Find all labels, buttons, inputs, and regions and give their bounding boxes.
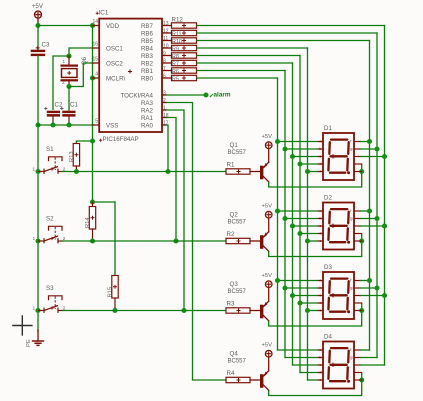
node pin14 junction <box>90 23 95 28</box>
node crystal pin1 junction <box>66 53 71 58</box>
svg-text:g: g <box>350 216 352 221</box>
wire RA3 row to R4 <box>193 379 227 381</box>
node bus d D3 junction <box>297 300 302 305</box>
resistor R8 <box>172 53 197 60</box>
node bus g D1 junction <box>374 146 379 151</box>
svg-text:RB4: RB4 <box>141 46 154 53</box>
node bus c D1 junction <box>290 154 295 159</box>
node bus dp D1 junction <box>382 154 387 159</box>
transistor Q1 BC557 <box>228 142 269 182</box>
wire RB3 net to segment bus <box>197 55 300 57</box>
node alarm <box>204 93 209 98</box>
svg-text:R5: R5 <box>172 76 179 82</box>
wire R13 top to pull-up rail <box>76 141 92 144</box>
wire Q3 collector to display D3 common <box>269 303 362 326</box>
svg-text:VDD: VDD <box>106 23 120 30</box>
svg-text:R3: R3 <box>227 301 235 308</box>
node bus d D2 junction <box>297 231 302 236</box>
wire segment bus dp <box>384 26 386 366</box>
node ground-S1 junction <box>35 169 40 174</box>
node bus b D1 junction <box>282 146 287 151</box>
wire VSS row (ground to IC pin 5) <box>38 124 94 126</box>
svg-text:c: c <box>319 293 321 298</box>
wire +5V rail to VDD junction <box>37 23 39 26</box>
svg-text:d: d <box>319 161 321 166</box>
svg-text:RB5: RB5 <box>141 38 154 45</box>
wire crystal pin2 down to C1 <box>68 87 70 111</box>
wire bus d to D4 <box>300 372 318 374</box>
wire RA2 to digit drive row <box>166 110 184 311</box>
svg-text:Q2: Q2 <box>230 212 239 219</box>
transistor Q4 BC557 <box>228 351 269 391</box>
wire RB0 net to segment bus <box>197 77 278 79</box>
svg-text:g: g <box>350 355 352 360</box>
wire R15 feed down <box>114 202 116 276</box>
svg-text:BC557: BC557 <box>228 359 247 365</box>
svg-text:PIC16F84AP: PIC16F84AP <box>103 136 139 143</box>
svg-text:Q3: Q3 <box>230 281 239 288</box>
power +5V supply symbol P1 <box>32 3 44 23</box>
svg-text:c: c <box>319 223 321 228</box>
svg-text:D4: D4 <box>324 333 332 340</box>
node ground-VSS junction <box>35 122 40 127</box>
resistor R7 <box>172 60 197 67</box>
node bus e D3 junction <box>305 308 310 313</box>
svg-text:BC557: BC557 <box>228 150 247 156</box>
svg-text:RB2: RB2 <box>141 61 154 68</box>
resistor R14 <box>85 202 96 241</box>
node bus g D3 junction <box>374 285 379 290</box>
svg-text:RA2: RA2 <box>141 108 154 115</box>
wire Q4 collector to display D4 common <box>269 373 362 396</box>
svg-text:14: 14 <box>92 19 98 25</box>
net label alarm <box>210 92 231 99</box>
wire bus a to D4 <box>278 349 318 351</box>
node bus dp D3 junction <box>382 293 387 298</box>
svg-text:RA1: RA1 <box>141 115 154 122</box>
svg-text:BC557: BC557 <box>228 289 247 295</box>
svg-text:12: 12 <box>163 28 169 34</box>
wire TOCKI/RA4 to alarm <box>166 94 206 96</box>
resistor R6 <box>172 68 197 75</box>
wire bus g to D2 right <box>361 218 378 220</box>
node R14 top junction <box>90 199 95 204</box>
wire bus f to D1 right <box>361 141 370 143</box>
node RA2-S3 row junction <box>181 308 186 313</box>
wire bus e to D4 <box>308 379 318 381</box>
svg-text:RA0: RA0 <box>141 123 154 130</box>
svg-text:16: 16 <box>92 42 98 48</box>
node C1 ground junction <box>66 122 71 127</box>
wire OSC1 to crystal <box>69 48 94 56</box>
wire segment bus g <box>376 33 378 358</box>
wire segment bus b <box>284 71 286 358</box>
display D4 7-segment <box>318 333 362 388</box>
resistor R11 <box>172 30 197 37</box>
node D4 common junction <box>359 377 364 382</box>
crystal Q6 <box>61 56 88 87</box>
node C2 ground junction <box>50 122 55 127</box>
wire bus f to D3 right <box>361 280 370 282</box>
svg-text:D1: D1 <box>324 125 332 132</box>
node D2 common junction <box>359 238 364 243</box>
svg-text:8: 8 <box>163 58 166 64</box>
resistor R15 <box>108 276 119 311</box>
svg-text:S3: S3 <box>46 285 54 292</box>
wire bus f to D4 right <box>361 349 370 351</box>
sheet origin cross <box>12 315 32 335</box>
svg-text:15: 15 <box>92 57 98 63</box>
wire RB7 net to segment bus <box>197 25 385 27</box>
svg-text:C3: C3 <box>42 41 50 48</box>
svg-text:+5V: +5V <box>262 204 273 210</box>
resistor R3 <box>226 301 260 314</box>
wire rail corner to R14 and R15 feed <box>93 201 116 203</box>
wire RB2 net to segment bus <box>197 62 293 64</box>
svg-text:2: 2 <box>163 98 166 104</box>
wire bus f to D2 right <box>361 210 370 212</box>
switch S1 <box>33 146 66 173</box>
wire bus b to D2 <box>285 218 318 220</box>
svg-text:D3: D3 <box>324 264 332 271</box>
svg-text:5: 5 <box>95 119 98 125</box>
wire bus dp to D2 right <box>361 225 385 227</box>
node D3 common junction <box>359 308 364 313</box>
svg-text:R6: R6 <box>172 69 179 75</box>
wire bus dp to D4 right <box>361 364 385 366</box>
wire RB6 net to segment bus <box>197 32 377 34</box>
svg-text:R7: R7 <box>172 61 179 67</box>
resistor R13 <box>69 144 80 172</box>
wire bus b to D3 <box>285 287 318 289</box>
svg-text:1: 1 <box>33 306 36 312</box>
svg-text:C1: C1 <box>70 102 78 109</box>
resistor R5 <box>172 75 197 82</box>
wire bus g to D1 right <box>361 148 378 150</box>
svg-text:R10: R10 <box>172 39 182 45</box>
svg-text:+5V: +5V <box>32 3 44 10</box>
node bus d D1 junction <box>297 161 302 166</box>
svg-text:4: 4 <box>95 72 98 78</box>
wire bus c to D4 <box>293 364 318 366</box>
wire RA0 to digit drive row <box>166 125 168 172</box>
node bus a D1 junction <box>275 139 280 144</box>
node R15 bottom junction <box>112 308 117 313</box>
transistor Q2 BC557 <box>228 212 269 252</box>
node crystal pin2 junction <box>66 84 71 89</box>
wire Q2 collector to display D2 common <box>269 234 362 257</box>
wire Q1 collector to display D1 common <box>269 164 362 187</box>
node MCLR junction <box>90 75 95 80</box>
node bus c D3 junction <box>290 293 295 298</box>
wire bus c to D2 <box>293 225 318 227</box>
node bus g D2 junction <box>374 216 379 221</box>
wire bus d to D1 <box>300 163 318 165</box>
svg-text:RB7: RB7 <box>141 23 154 30</box>
node bus b D2 junction <box>282 216 287 221</box>
resistor R10 <box>172 38 197 45</box>
svg-text:+5V: +5V <box>262 273 273 279</box>
svg-text:d: d <box>319 231 321 236</box>
node bus c D2 junction <box>290 223 295 228</box>
svg-text:S1: S1 <box>46 146 54 153</box>
power +5V at Q1 <box>262 134 273 149</box>
svg-text:R9: R9 <box>172 46 179 52</box>
wire crystal pin1 branch to C2 <box>53 56 69 110</box>
wire bus e to D3 <box>308 310 318 312</box>
node ground-S3 junction <box>35 308 40 313</box>
wire S2 row to R2 <box>63 240 227 242</box>
wire bus b to D1 <box>285 148 318 150</box>
wire bus a to D3 <box>278 280 318 282</box>
svg-text:d: d <box>319 300 321 305</box>
wire bus a to D2 <box>278 210 318 212</box>
svg-text:R1: R1 <box>227 162 235 169</box>
wire pull-up rail down (VDD to MCLR to R13) <box>92 26 94 203</box>
resistor R2 <box>226 231 260 244</box>
svg-text:+5V: +5V <box>262 343 273 349</box>
resistor R9 <box>172 45 197 52</box>
svg-text:IC1: IC1 <box>99 10 109 17</box>
wire RA3 to digit drive row <box>166 103 193 381</box>
svg-text:d: d <box>319 370 321 375</box>
svg-text:c: c <box>319 154 321 159</box>
node RA1-S2 row junction <box>173 238 178 243</box>
svg-text:R11: R11 <box>172 31 182 37</box>
wire bus e to D1 <box>308 171 318 173</box>
node R14 bottom junction <box>90 238 95 243</box>
capacitor C2 <box>44 102 63 126</box>
node bus dp D2 junction <box>382 223 387 228</box>
wire ground rail (VSS row down to PE) <box>37 125 39 331</box>
svg-text:13: 13 <box>163 21 169 27</box>
node R13 bottom junction <box>74 169 79 174</box>
capacitor C1 <box>60 102 78 126</box>
display D1 7-segment <box>318 125 362 180</box>
node bus e D2 junction <box>305 238 310 243</box>
svg-text:RB6: RB6 <box>141 31 154 38</box>
svg-text:RA3: RA3 <box>141 100 154 107</box>
wire bus d to D3 <box>300 302 318 304</box>
resistor R1 <box>226 162 260 175</box>
svg-text:R2: R2 <box>227 231 235 238</box>
transistor Q3 BC557 <box>228 281 269 321</box>
node bus a D2 junction <box>275 208 280 213</box>
node bus e D1 junction <box>305 169 310 174</box>
svg-text:OSC2: OSC2 <box>106 61 123 68</box>
node bus a D3 junction <box>275 278 280 283</box>
svg-text:R4: R4 <box>227 370 235 377</box>
svg-text:1: 1 <box>33 236 36 242</box>
wire bus d to D2 <box>300 233 318 235</box>
node bus b D3 junction <box>282 285 287 290</box>
wire C3 to ground rail <box>37 56 39 125</box>
svg-text:1: 1 <box>63 59 66 64</box>
wire segment bus f <box>369 41 371 351</box>
wire bus a to D1 <box>278 141 318 143</box>
wire RB1 net to segment bus <box>197 70 285 72</box>
power +5V at Q4 <box>262 343 273 358</box>
svg-text:c: c <box>319 362 321 367</box>
wire S3 row to R3 <box>63 310 227 312</box>
wire bus dp to D1 right <box>361 156 385 158</box>
svg-text:TOCKI/RA4: TOCKI/RA4 <box>120 93 153 100</box>
wire VDD row to IC pin 14 <box>38 25 93 27</box>
wire bus c to D1 <box>293 156 318 158</box>
wire RA1 to digit drive row <box>166 118 176 242</box>
ground PE earth symbol <box>26 330 44 347</box>
capacitor C3 <box>31 41 50 56</box>
svg-text:PE: PE <box>26 339 32 347</box>
svg-text:+5V: +5V <box>262 134 273 140</box>
wire bus c to D3 <box>293 295 318 297</box>
svg-text:1: 1 <box>163 105 166 111</box>
svg-text:RB3: RB3 <box>141 53 154 60</box>
svg-text:R8: R8 <box>172 54 179 60</box>
node D1 common junction <box>359 169 364 174</box>
svg-text:g: g <box>350 146 352 151</box>
node VDD rail junction <box>35 23 40 28</box>
svg-text:D2: D2 <box>324 194 332 201</box>
wire crystal pin2 to OSC2 <box>69 63 94 87</box>
svg-text:9: 9 <box>163 51 166 57</box>
power +5V at Q2 <box>262 204 273 219</box>
switch S2 <box>33 216 66 243</box>
op IC1 PIC16F84A microcontroller U1 <box>92 10 171 144</box>
power +5V at Q3 <box>262 273 273 288</box>
svg-text:MCLR\: MCLR\ <box>106 76 126 83</box>
resistor R12 <box>172 17 197 29</box>
node R13 rail junction <box>90 138 95 143</box>
svg-text:S2: S2 <box>46 216 54 223</box>
node RA0-S1 row junction <box>165 169 170 174</box>
wire segment bus c <box>292 63 294 365</box>
wire segment bus e <box>307 48 309 380</box>
node ground-S2 junction <box>35 238 40 243</box>
node bus f D2 junction <box>367 208 372 213</box>
wire rail to C3 <box>37 26 39 50</box>
svg-text:VSS: VSS <box>106 123 118 130</box>
node bus f D3 junction <box>367 278 372 283</box>
wire bus dp to D3 right <box>361 295 385 297</box>
wire bus b to D4 <box>285 357 318 359</box>
wire RB5 net to segment bus <box>197 40 370 42</box>
resistor R4 <box>226 370 260 383</box>
wire S1 row to R1 <box>63 171 227 173</box>
svg-text:10: 10 <box>163 43 169 49</box>
svg-text:g: g <box>350 285 352 290</box>
switch S3 <box>33 285 66 312</box>
wire segment bus d <box>299 56 301 373</box>
svg-text:7: 7 <box>163 66 166 72</box>
svg-text:RB1: RB1 <box>141 68 154 75</box>
display D2 7-segment <box>318 194 362 249</box>
svg-text:1: 1 <box>33 167 36 173</box>
svg-text:OSC1: OSC1 <box>106 46 123 53</box>
svg-text:Q1: Q1 <box>230 142 239 149</box>
svg-text:11: 11 <box>163 36 168 42</box>
svg-text:BC557: BC557 <box>228 220 247 226</box>
node bus f D1 junction <box>367 139 372 144</box>
svg-text:6: 6 <box>163 73 166 79</box>
wire segment bus a <box>277 78 279 350</box>
wire bus e to D2 <box>308 240 318 242</box>
display D3 7-segment <box>318 264 362 319</box>
wire bus g to D4 right <box>361 357 378 359</box>
wire RB4 net to segment bus <box>197 47 308 49</box>
svg-text:alarm: alarm <box>214 92 231 99</box>
svg-text:Q4: Q4 <box>230 351 239 358</box>
wire bus g to D3 right <box>361 287 378 289</box>
svg-text:RB0: RB0 <box>141 76 154 83</box>
